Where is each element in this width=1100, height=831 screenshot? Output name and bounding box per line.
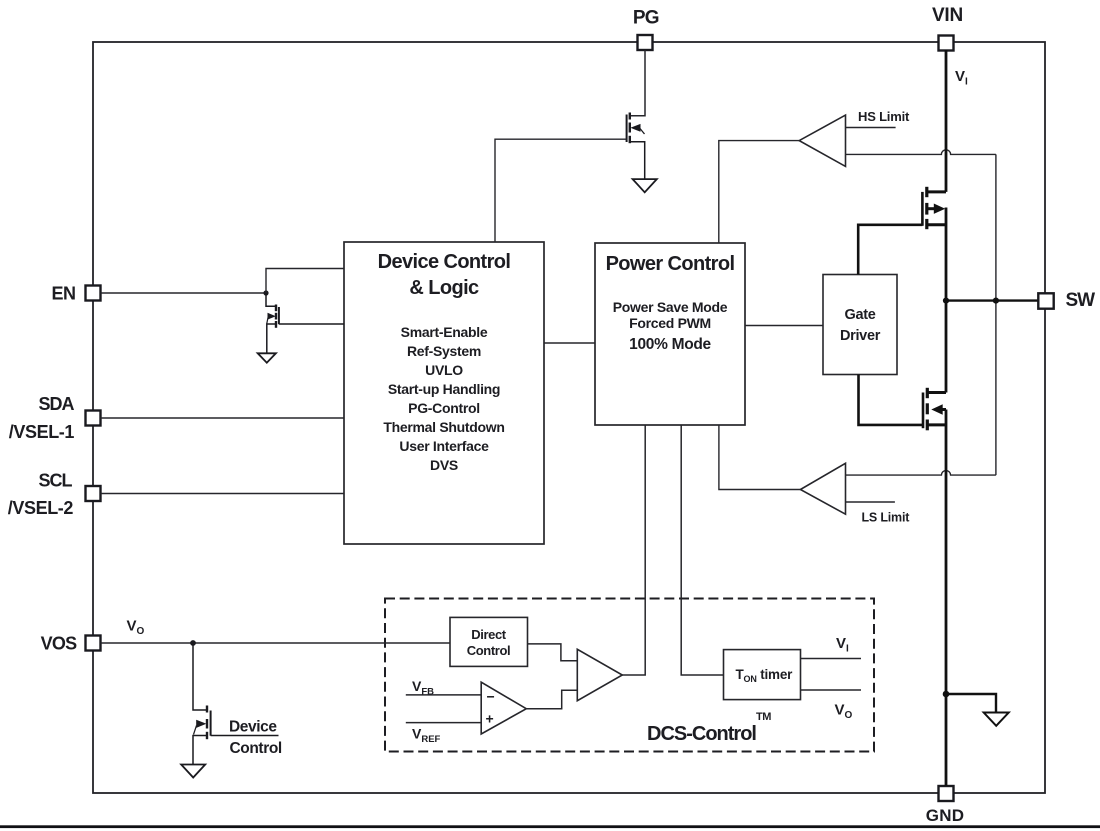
ground at EN FET (258, 353, 276, 362)
svg-text:Driver: Driver (840, 328, 881, 344)
svg-text:DVS: DVS (430, 457, 458, 473)
pin EN terminal (86, 286, 101, 301)
wire Power Control to TON timer (681, 425, 723, 675)
wire EN node up to Device Control (266, 269, 344, 294)
svg-text:Direct: Direct (471, 627, 507, 642)
svg-text:HS Limit: HS Limit (858, 109, 910, 124)
wire EN pin to gate node (101, 292, 267, 294)
pin VOS terminal (86, 636, 101, 651)
svg-text:100% Mode: 100% Mode (629, 336, 711, 353)
wire HS comparator output to Power Control (719, 141, 799, 243)
wire PG pin to PG FET drain (630, 50, 645, 116)
wire LS comparator sense input to SW sense rail (hop over VIN rail) (846, 471, 996, 476)
svg-text:DCS-Control: DCS-Control (647, 723, 756, 745)
transistor Q-PG (power good FET) (627, 113, 645, 180)
block Power Control (595, 243, 745, 425)
wire TON timer VO input (801, 689, 862, 691)
wire buffer output to Power Control (622, 425, 645, 675)
svg-text:TM: TM (756, 711, 771, 723)
svg-text:SDA: SDA (38, 394, 74, 414)
wire Power Control to Gate Driver (745, 325, 823, 327)
wire SDA to Device Control (101, 417, 345, 419)
block Direct Control (450, 617, 528, 666)
svg-text:& Logic: & Logic (409, 277, 479, 299)
pin GND terminal (939, 786, 954, 801)
block Device Control & Logic (344, 242, 544, 544)
wire Device Control to PG FET gate (495, 139, 627, 242)
pin SCL terminal (86, 486, 101, 501)
wire HS comparator sense input to SW sense rail (hop over VIN rail) (846, 150, 996, 155)
wire VFB input (406, 694, 481, 696)
svg-text:Control: Control (230, 740, 282, 757)
svg-text:UVLO: UVLO (425, 362, 463, 378)
VIN power rail main segment through SW to GND (945, 208, 948, 393)
pin VIN terminal (939, 36, 954, 51)
ground at PG FET (633, 179, 657, 192)
svg-text:Control: Control (467, 643, 510, 658)
transistor Q-LS (low side power FET) (923, 388, 946, 431)
node GND arm junction (943, 691, 950, 698)
node SW on sense rail (993, 298, 999, 304)
wire SW node to SW pin (946, 299, 1038, 301)
ground at VOS FET (181, 765, 205, 778)
outer device boundary box (93, 42, 1045, 793)
transistor Q-EN (enable sense FET) (266, 293, 344, 353)
wire GND arm to internal ground (946, 694, 996, 712)
svg-text:−: − (487, 689, 495, 705)
svg-text:Ref-System: Ref-System (407, 343, 481, 359)
svg-text:Forced PWM: Forced PWM (629, 315, 711, 331)
transistor Q-VOS (discharge FET) (193, 643, 279, 764)
wire LS Limit input stub (846, 501, 895, 503)
wire Direct Control to summing buffer (528, 644, 578, 661)
wire Device Control to Power Control (544, 342, 595, 344)
comparator LS Limit (800, 463, 845, 514)
dashed DCS-Control boundary (385, 599, 874, 752)
svg-text:VIN: VIN (932, 5, 963, 26)
block TON timer (724, 650, 801, 700)
svg-text:Thermal Shutdown: Thermal Shutdown (383, 419, 504, 435)
svg-text:Start-up Handling: Start-up Handling (388, 381, 500, 397)
svg-text:+: + (486, 711, 494, 727)
pin SDA terminal (86, 411, 101, 426)
wire VREF input (406, 722, 481, 724)
svg-text:GND: GND (926, 806, 964, 825)
node VOS junction dot (190, 640, 196, 646)
wire HS gate to Gate Driver (858, 225, 922, 275)
svg-text:Power Control: Power Control (606, 253, 735, 275)
wire Gate Driver to LS gate (859, 375, 924, 425)
svg-text:Device Control: Device Control (378, 251, 511, 273)
svg-text:VOS: VOS (41, 634, 78, 654)
block Gate Driver (823, 275, 897, 375)
comparator HS Limit (799, 115, 845, 166)
node SW on VIN rail (943, 298, 949, 304)
wire LS comparator output to Power Control (719, 425, 801, 490)
wire VOS pin to Direct Control (101, 642, 451, 644)
svg-text:Power Save Mode: Power Save Mode (613, 299, 728, 315)
pin SW terminal (1038, 293, 1053, 308)
VIN power rail upper segment (945, 50, 948, 192)
wire comparator output to summing buffer (526, 690, 577, 709)
svg-text:LS Limit: LS Limit (862, 511, 911, 525)
wire HS Limit input stub (846, 127, 896, 129)
wire SW sense rail vertical (995, 154, 997, 475)
svg-text:/VSEL-2: /VSEL-2 (8, 498, 74, 518)
svg-text:SCL: SCL (39, 471, 73, 491)
node EN junction dot (263, 290, 268, 295)
svg-text:Gate: Gate (844, 307, 875, 323)
summing buffer triangle (577, 649, 622, 700)
svg-text:Smart-Enable: Smart-Enable (401, 324, 488, 340)
svg-text:User Interface: User Interface (399, 438, 489, 454)
svg-text:PG: PG (633, 8, 659, 29)
svg-text:SW: SW (1066, 290, 1096, 311)
transistor Q-HS (high side power FET) (922, 187, 946, 229)
page rule at bottom (0, 825, 1100, 828)
wire TON timer VI input (801, 658, 862, 660)
wire SCL to Device Control (101, 493, 345, 495)
svg-text:Device: Device (229, 719, 277, 736)
pin PG terminal (638, 35, 653, 50)
ground internal (near GND) (984, 713, 1009, 726)
op-amp error comparator (481, 682, 526, 734)
svg-text:/VSEL-1: /VSEL-1 (9, 422, 75, 442)
svg-text:EN: EN (51, 284, 75, 304)
svg-text:PG-Control: PG-Control (408, 400, 480, 416)
